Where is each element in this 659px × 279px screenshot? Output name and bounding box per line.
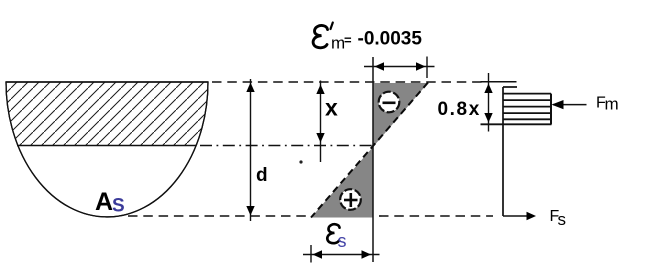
svg-text:-0.0035: -0.0035: [358, 29, 423, 50]
svg-text:m: m: [605, 95, 619, 114]
svg-text:=: =: [344, 32, 352, 47]
svg-text:0.8x: 0.8x: [438, 99, 481, 120]
svg-text:A: A: [95, 188, 113, 216]
svg-text:x: x: [325, 94, 338, 120]
svg-text:m: m: [331, 34, 345, 53]
svg-text:s: s: [558, 210, 567, 229]
svg-text:s: s: [338, 231, 347, 251]
svg-text:S: S: [112, 196, 125, 217]
svg-text:d: d: [256, 165, 268, 186]
